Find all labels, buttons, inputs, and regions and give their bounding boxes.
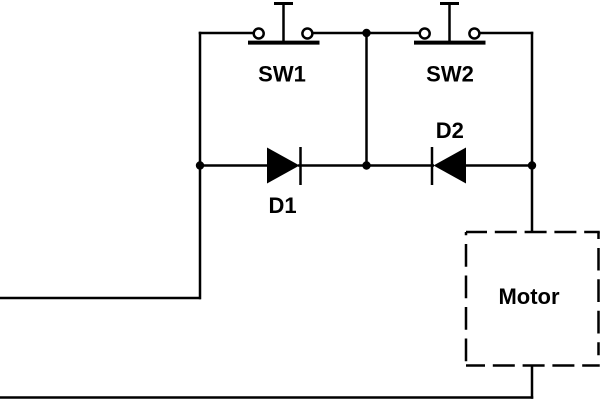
wire: top rail left segment [199,32,253,35]
motor box (dashed) [466,232,600,366]
diode D1 [267,147,301,185]
SW2 left terminal circle [420,29,430,39]
wire: bottom rail [0,396,533,399]
SW1 plunger stem [282,4,285,44]
SW1 actuator bar [248,41,320,45]
wire: top rail middle segment [313,32,419,35]
wire: right rail upper (to motor) [531,32,534,232]
junction dot: right rail / diode row [528,161,536,169]
diode D2 [432,147,466,185]
wire: D2 anode lead [464,164,532,167]
SW1 left terminal circle [254,29,264,39]
junction dot: middle branch / diode row [362,161,370,169]
SW2 plunger stem [448,4,451,44]
SW2 actuator bar [414,41,486,45]
SW2 plunger cap [440,2,459,5]
pushbutton SW1 [248,4,320,44]
SW2 right terminal circle [469,29,479,39]
wire: D1 cathode lead [298,164,367,167]
D2 cathode bar [431,147,434,185]
svg-text:Motor: Motor [498,284,560,309]
svg-text:D2: D2 [436,118,464,143]
junction dot: left rail / diode row [196,161,204,169]
svg-text:SW2: SW2 [426,61,474,86]
wire: middle branch vertical [365,33,368,165]
D1 triangle (anode) [267,148,300,184]
wire: motor bottom lead [531,365,534,399]
D2 triangle (anode) [434,148,467,184]
wire: left rail vertical [199,32,202,300]
junction dot: top rail / middle branch [362,29,370,37]
wire: top rail right segment [480,32,533,35]
svg-text:SW1: SW1 [258,61,306,86]
wire: left lead horizontal [0,297,201,300]
D1 cathode bar [299,147,302,185]
wire: D1 anode lead [200,164,270,167]
wire: D2 cathode lead [367,164,435,167]
pushbutton SW2 [414,4,486,44]
SW1 right terminal circle [302,29,312,39]
svg-text:D1: D1 [268,193,296,218]
SW1 plunger cap [274,2,293,5]
